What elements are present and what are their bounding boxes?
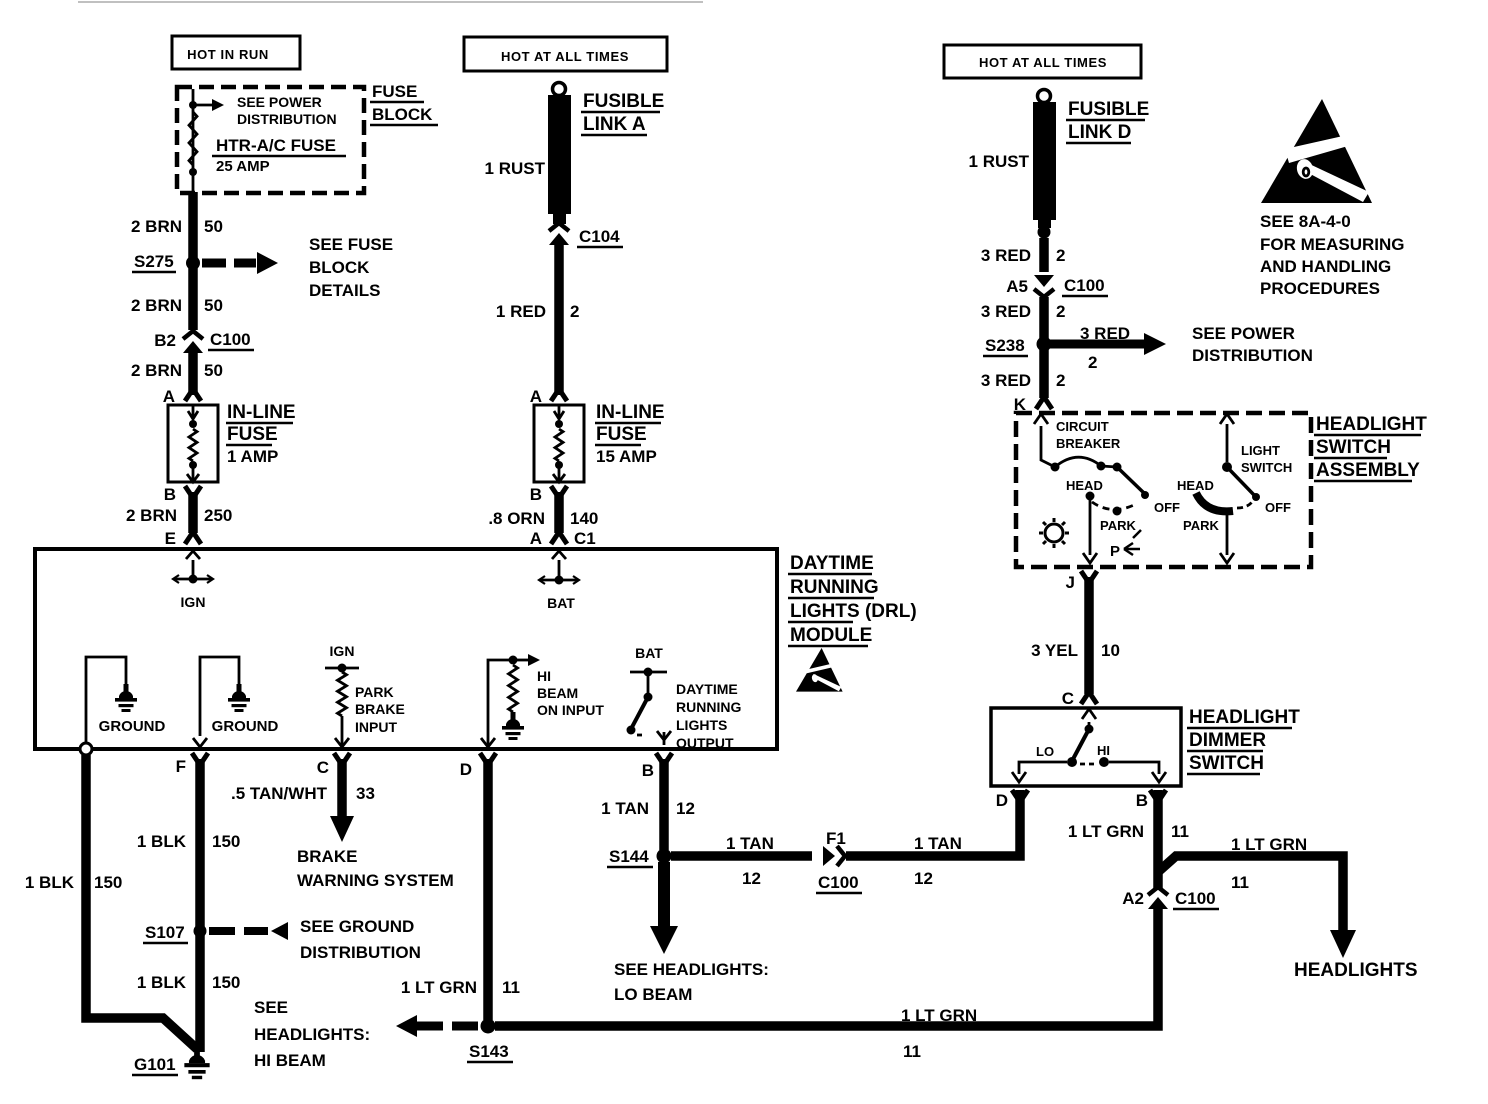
breaker contact 2 — [1097, 462, 1106, 471]
svg-text:150: 150 — [212, 832, 240, 851]
svg-text:IN-LINE: IN-LINE — [227, 402, 296, 423]
dashed arc right switch — [1237, 502, 1252, 508]
svg-text:SEE 8A-4-0: SEE 8A-4-0 — [1260, 212, 1351, 231]
svg-text:1 LT GRN: 1 LT GRN — [1068, 822, 1144, 841]
svg-text:1 AMP: 1 AMP — [227, 447, 278, 466]
svg-text:HEADLIGHT: HEADLIGHT — [1189, 707, 1300, 728]
connector F1 C100 — [823, 846, 835, 866]
svg-text:2: 2 — [1088, 353, 1097, 372]
wire fuse1 to DRL E — [188, 492, 198, 533]
wire HEAD contact down to J — [1083, 500, 1097, 563]
svg-text:C100: C100 — [210, 330, 251, 349]
svg-text:1 RUST: 1 RUST — [485, 159, 546, 178]
svg-text:HOT AT ALL TIMES: HOT AT ALL TIMES — [501, 49, 629, 64]
svg-text:11: 11 — [1231, 873, 1249, 892]
svg-text:S144: S144 — [609, 847, 649, 866]
svg-text:INPUT: INPUT — [355, 719, 397, 735]
connector A2 C100 — [1148, 887, 1168, 895]
svg-text:FUSIBLE: FUSIBLE — [583, 91, 664, 112]
HOT AT ALL TIMES label box (right) — [944, 45, 1141, 78]
svg-text:1 BLK: 1 BLK — [137, 973, 187, 992]
light switch pivot — [1222, 462, 1232, 472]
svg-text:FUSE: FUSE — [227, 424, 278, 445]
svg-text:DIMMER: DIMMER — [1189, 730, 1266, 751]
svg-text:E: E — [165, 529, 176, 548]
LO contact — [1067, 757, 1077, 767]
svg-text:150: 150 — [94, 873, 122, 892]
svg-text:HOT AT ALL TIMES: HOT AT ALL TIMES — [979, 55, 1107, 70]
park lamp sun symbol — [1039, 518, 1069, 548]
svg-text:1 RUST: 1 RUST — [969, 152, 1030, 171]
svg-text:LIGHTS (DRL): LIGHTS (DRL) — [790, 601, 917, 622]
fuse 1 element — [188, 405, 198, 419]
svg-text:FOR MEASURING: FOR MEASURING — [1260, 235, 1405, 254]
svg-text:S143: S143 — [469, 1042, 509, 1061]
svg-text:.8 ORN: .8 ORN — [488, 509, 545, 528]
svg-text:S275: S275 — [134, 252, 174, 271]
K arrow inside assembly — [1034, 414, 1055, 467]
in-line fuse 2 box — [534, 405, 584, 482]
svg-text:BAT: BAT — [635, 645, 663, 661]
svg-text:BLOCK: BLOCK — [372, 105, 433, 124]
ESD symbol (see 8A-4-0) — [1261, 99, 1372, 203]
svg-text:HEAD: HEAD — [1177, 478, 1214, 493]
link D lower junction — [1038, 226, 1051, 239]
svg-text:IGN: IGN — [330, 643, 355, 659]
svg-text:DAYTIME: DAYTIME — [790, 553, 874, 574]
svg-text:11: 11 — [502, 978, 520, 997]
svg-text:1 TAN: 1 TAN — [914, 834, 962, 853]
svg-text:B: B — [1136, 791, 1148, 810]
DRL output BAT node — [644, 668, 653, 677]
arrow see power distribution — [193, 104, 212, 107]
svg-text:HEADLIGHTS:: HEADLIGHTS: — [254, 1025, 370, 1044]
svg-text:1 RED: 1 RED — [496, 302, 546, 321]
svg-text:BLOCK: BLOCK — [309, 258, 370, 277]
solid travel arc (right switch) — [1196, 493, 1233, 511]
svg-text:2: 2 — [1056, 302, 1065, 321]
wire S144 to F1 — [671, 851, 812, 861]
svg-text:RUNNING: RUNNING — [790, 577, 879, 598]
wire F1 to dimmer D — [846, 790, 1020, 856]
pin A into DRL module (fletch) — [551, 532, 567, 544]
wire inside fuse block — [192, 89, 195, 192]
dimmer pivot — [1085, 725, 1094, 734]
svg-text:HI: HI — [1097, 743, 1110, 758]
pin A of in-line fuse 1 (fletch) — [185, 389, 201, 401]
svg-text:2 BRN: 2 BRN — [126, 506, 177, 525]
svg-text:A: A — [530, 529, 542, 548]
svg-text:FUSE: FUSE — [372, 82, 417, 101]
ground 2 wiring — [200, 657, 239, 736]
svg-text:LINK A: LINK A — [583, 114, 646, 135]
svg-text:PARK: PARK — [355, 684, 394, 700]
svg-text:BRAKE: BRAKE — [355, 701, 405, 717]
svg-text:1 TAN: 1 TAN — [726, 834, 774, 853]
node — [189, 420, 197, 428]
svg-text:2: 2 — [1056, 371, 1065, 390]
svg-text:3 RED: 3 RED — [981, 371, 1031, 390]
svg-text:12: 12 — [914, 869, 933, 888]
S275 node — [186, 256, 200, 270]
svg-text:HOT IN RUN: HOT IN RUN — [187, 47, 269, 62]
svg-text:D: D — [460, 760, 472, 779]
S143 node — [481, 1019, 496, 1034]
svg-text:PARK: PARK — [1100, 518, 1136, 533]
pin A of in-line fuse 2 (fletch) — [551, 389, 567, 401]
fusible link A — [553, 83, 566, 96]
wire A5 to K — [1039, 297, 1049, 398]
solid arrow SEE POWER DISTRIBUTION — [1050, 340, 1145, 349]
hi beam node — [509, 656, 518, 665]
svg-text:2: 2 — [1056, 246, 1065, 265]
svg-text:MODULE: MODULE — [790, 625, 872, 646]
pin B of in-line fuse 2 (fletch) — [551, 486, 567, 498]
fuse 2 element — [554, 405, 564, 419]
svg-text:F: F — [176, 757, 186, 776]
svg-text:SEE FUSE: SEE FUSE — [309, 235, 393, 254]
dashed travel arc (left switch) — [1092, 502, 1136, 510]
DRL module box — [35, 549, 777, 749]
svg-text:1 LT GRN: 1 LT GRN — [1231, 835, 1307, 854]
fusible link D — [1038, 90, 1051, 103]
svg-text:140: 140 — [570, 509, 598, 528]
svg-text:B: B — [164, 485, 176, 504]
DRL switch arm end — [627, 726, 636, 735]
svg-text:50: 50 — [204, 296, 223, 315]
wire ground1 to G101 — [86, 755, 197, 1049]
ground symbol 1 — [115, 684, 137, 712]
svg-text:C100: C100 — [1175, 889, 1216, 908]
wire F to G101 — [195, 759, 205, 1052]
hi beam on input internals — [488, 660, 513, 745]
svg-text:AND HANDLING: AND HANDLING — [1260, 257, 1391, 276]
svg-text:50: 50 — [204, 217, 223, 236]
svg-text:3 RED: 3 RED — [981, 246, 1031, 265]
svg-text:PROCEDURES: PROCEDURES — [1260, 279, 1380, 298]
svg-text:.5 TAN/WHT: .5 TAN/WHT — [231, 784, 328, 803]
svg-text:A: A — [530, 387, 542, 406]
svg-text:HEADLIGHTS: HEADLIGHTS — [1294, 960, 1418, 981]
svg-text:S107: S107 — [145, 923, 185, 942]
node — [189, 461, 197, 469]
svg-text:10: 10 — [1101, 641, 1120, 660]
pin C out of DRL (fletch) — [334, 753, 350, 765]
node — [555, 420, 563, 428]
svg-text:BEAM: BEAM — [537, 685, 578, 701]
svg-text:1 TAN: 1 TAN — [601, 799, 649, 818]
svg-text:HEADLIGHT: HEADLIGHT — [1316, 414, 1427, 435]
svg-text:C104: C104 — [579, 227, 620, 246]
svg-text:12: 12 — [742, 869, 761, 888]
svg-text:OFF: OFF — [1154, 500, 1180, 515]
svg-text:HI: HI — [537, 668, 551, 684]
dimmer arm — [1082, 709, 1096, 728]
pin C into dimmer switch (fletch) — [1081, 692, 1097, 704]
svg-text:2: 2 — [570, 302, 579, 321]
svg-text:33: 33 — [356, 784, 375, 803]
pin D out of dimmer (fletch) — [1012, 790, 1028, 802]
svg-text:150: 150 — [212, 973, 240, 992]
svg-text:S238: S238 — [985, 336, 1025, 355]
svg-text:DETAILS: DETAILS — [309, 281, 380, 300]
pin B out of dimmer (fletch) — [1150, 790, 1166, 802]
svg-text:CIRCUIT: CIRCUIT — [1056, 419, 1109, 434]
wire C100 to in-line fuse — [188, 352, 198, 395]
breaker contact 1 — [1051, 463, 1060, 472]
fuse block dashed box — [177, 87, 364, 193]
wire HTR fuse to B2 — [188, 192, 198, 330]
svg-text:ON INPUT: ON INPUT — [537, 702, 604, 718]
svg-text:OUTPUT: OUTPUT — [676, 735, 734, 751]
faint scan line top — [78, 1, 703, 3]
headlight switch assembly dashed box — [1016, 413, 1311, 567]
pin E into DRL module (fletch) — [185, 532, 201, 544]
wire dimmer B down — [1153, 790, 1163, 888]
breaker contact 3 — [1113, 463, 1122, 472]
pin B out of DRL (fletch) — [656, 753, 672, 765]
S144 node — [657, 849, 672, 864]
svg-text:LIGHTS: LIGHTS — [676, 717, 727, 733]
wire down from right switch — [1220, 513, 1234, 563]
svg-text:HTR-A/C FUSE: HTR-A/C FUSE — [216, 136, 336, 155]
ground 1 case connection — [80, 743, 92, 755]
svg-text:11: 11 — [903, 1042, 921, 1061]
svg-text:1 BLK: 1 BLK — [25, 873, 75, 892]
dimmer bracket wires — [1012, 762, 1067, 782]
svg-text:HI BEAM: HI BEAM — [254, 1051, 326, 1070]
G101 ground symbol — [184, 1047, 209, 1079]
svg-text:2 BRN: 2 BRN — [131, 296, 182, 315]
svg-text:BREAKER: BREAKER — [1056, 436, 1121, 451]
wire to headlights — [1158, 856, 1343, 932]
headlight dimmer switch box — [991, 708, 1181, 786]
svg-text:DISTRIBUTION: DISTRIBUTION — [300, 943, 421, 962]
svg-text:DAYTIME: DAYTIME — [676, 681, 738, 697]
svg-text:RUNNING: RUNNING — [676, 699, 741, 715]
park brake IGN node — [338, 664, 347, 673]
svg-text:1 LT GRN: 1 LT GRN — [401, 978, 477, 997]
pin B of in-line fuse 1 (fletch) — [185, 486, 201, 498]
BAT pin internals — [552, 551, 566, 577]
IGN pin node — [189, 575, 198, 584]
svg-text:15 AMP: 15 AMP — [596, 447, 657, 466]
svg-text:J: J — [1066, 573, 1075, 592]
svg-text:WARNING SYSTEM: WARNING SYSTEM — [297, 871, 454, 890]
svg-text:50: 50 — [204, 361, 223, 380]
svg-text:G101: G101 — [134, 1055, 176, 1074]
svg-text:C100: C100 — [818, 873, 859, 892]
connector B2 C100 — [183, 331, 203, 339]
svg-text:C: C — [317, 758, 329, 777]
svg-text:SEE POWER: SEE POWER — [237, 94, 322, 110]
wire D to S143 — [483, 759, 493, 1020]
svg-text:SWITCH: SWITCH — [1189, 753, 1264, 774]
svg-text:GROUND: GROUND — [99, 718, 166, 735]
fuse lower junction — [189, 168, 197, 176]
dashed arrow SEE GROUND DISTRIBUTION — [209, 927, 268, 935]
svg-text:3 YEL: 3 YEL — [1031, 641, 1078, 660]
svg-text:2 BRN: 2 BRN — [131, 361, 182, 380]
svg-text:GROUND: GROUND — [212, 718, 279, 735]
S107 node — [194, 925, 207, 938]
wire link D to A5 — [1039, 238, 1049, 272]
wire B to S144 — [659, 759, 669, 850]
svg-text:ASSEMBLY: ASSEMBLY — [1316, 460, 1420, 481]
svg-text:A5: A5 — [1006, 277, 1028, 296]
BAT pin node — [555, 576, 564, 585]
svg-text:BAT: BAT — [547, 595, 575, 611]
svg-text:12: 12 — [676, 799, 695, 818]
svg-text:25 AMP: 25 AMP — [216, 158, 270, 175]
dashed arrow SEE FUSE BLOCK DETAILS — [202, 259, 256, 268]
IGN pin internals — [186, 551, 200, 576]
svg-text:1 BLK: 1 BLK — [137, 832, 187, 851]
wire J to dimmer C — [1084, 577, 1094, 694]
ground 1 wiring — [86, 657, 126, 749]
svg-text:1 LT GRN: 1 LT GRN — [901, 1006, 977, 1025]
wire C104 to in-line fuse 2 — [554, 244, 564, 395]
pin J out of assembly (fletch) — [1081, 571, 1097, 583]
S238 node — [1037, 337, 1052, 352]
HI contact — [1099, 757, 1109, 767]
svg-text:SEE GROUND: SEE GROUND — [300, 917, 414, 936]
svg-text:C: C — [1062, 689, 1074, 708]
svg-text:B2: B2 — [154, 331, 176, 350]
svg-text:IGN: IGN — [181, 594, 206, 610]
svg-text:IN-LINE: IN-LINE — [596, 402, 665, 423]
svg-text:P: P — [1110, 543, 1120, 560]
svg-text:SEE: SEE — [254, 998, 288, 1017]
svg-text:250: 250 — [204, 506, 232, 525]
svg-text:B: B — [642, 761, 654, 780]
connector A5 C100 — [1034, 275, 1054, 287]
in-line fuse 1 box — [168, 405, 218, 482]
svg-text:FUSE: FUSE — [596, 424, 647, 445]
svg-text:LINK D: LINK D — [1068, 122, 1131, 143]
svg-text:HEAD: HEAD — [1066, 478, 1103, 493]
pin F out of DRL (fletch) — [192, 753, 208, 765]
svg-text:PARK: PARK — [1183, 518, 1219, 533]
svg-text:SEE POWER: SEE POWER — [1192, 324, 1295, 343]
svg-text:DISTRIBUTION: DISTRIBUTION — [237, 111, 337, 127]
headlight switch arm (left) — [1117, 467, 1145, 494]
hi beam ground symbol — [502, 712, 524, 740]
svg-text:SWITCH: SWITCH — [1241, 460, 1292, 475]
svg-text:F1: F1 — [826, 829, 846, 848]
wire C to brake warning — [337, 759, 347, 818]
node — [555, 461, 563, 469]
svg-text:2 BRN: 2 BRN — [131, 217, 182, 236]
pin D out of DRL (fletch) — [480, 753, 496, 765]
wire fuse2 to DRL A — [554, 492, 564, 533]
connector C104 — [549, 223, 569, 231]
svg-text:A2: A2 — [1122, 889, 1144, 908]
PARK contact — [1113, 507, 1122, 516]
DRL switch pivot — [644, 693, 653, 702]
HOT IN RUN label box — [172, 36, 300, 69]
svg-text:OFF: OFF — [1265, 500, 1291, 515]
ground symbol 2 — [228, 684, 250, 712]
svg-text:LIGHT: LIGHT — [1241, 443, 1280, 458]
svg-text:B: B — [530, 485, 542, 504]
svg-text:BRAKE: BRAKE — [297, 847, 357, 866]
wire S143 to A2 C100 — [495, 908, 1158, 1026]
svg-text:11: 11 — [1171, 822, 1189, 841]
HEAD contact — [1086, 492, 1095, 501]
arm end — [1141, 491, 1149, 499]
small ESD symbol — [796, 648, 843, 692]
HOT AT ALL TIMES label box (middle) — [464, 37, 667, 71]
pin K into headlight switch assembly (fletch) — [1036, 397, 1052, 409]
svg-text:3 RED: 3 RED — [981, 302, 1031, 321]
svg-text:SWITCH: SWITCH — [1316, 437, 1391, 458]
junction in fuse block — [189, 101, 197, 109]
svg-text:LO BEAM: LO BEAM — [614, 985, 692, 1004]
dashed arrow SEE HEADLIGHTS HI BEAM — [416, 1022, 478, 1031]
svg-text:A: A — [163, 387, 175, 406]
S144 arrow to headlights lo beam — [658, 862, 670, 928]
light switch arm end — [1252, 493, 1260, 501]
svg-text:D: D — [996, 791, 1008, 810]
svg-text:C1: C1 — [574, 529, 596, 548]
svg-text:FUSIBLE: FUSIBLE — [1068, 99, 1149, 120]
svg-text:C100: C100 — [1064, 276, 1105, 295]
svg-text:LO: LO — [1036, 744, 1054, 759]
svg-text:SEE HEADLIGHTS:: SEE HEADLIGHTS: — [614, 960, 769, 979]
svg-text:3 RED: 3 RED — [1080, 324, 1130, 343]
light switch (right) — [1220, 414, 1234, 462]
svg-text:DISTRIBUTION: DISTRIBUTION — [1192, 346, 1313, 365]
